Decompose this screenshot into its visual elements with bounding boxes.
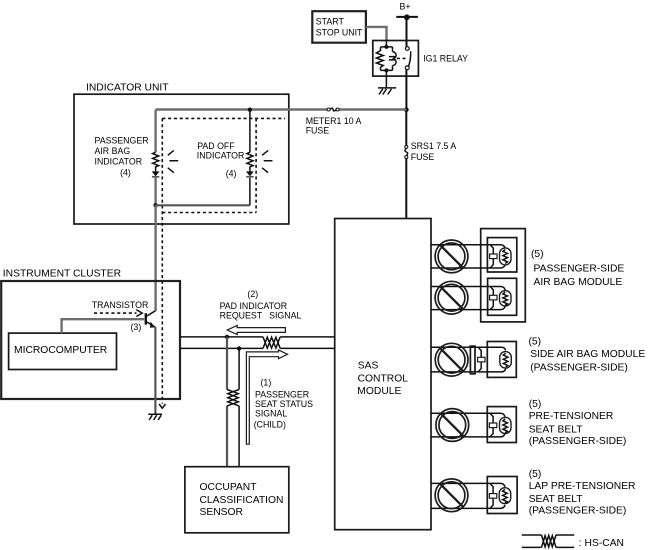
- svg-text:(5): (5): [529, 399, 542, 410]
- box SAS CONTROL MODULE: [335, 219, 431, 530]
- legend twisted pair HS-CAN: [522, 535, 574, 547]
- svg-text:INDICATOR UNIT: INDICATOR UNIT: [86, 82, 169, 93]
- wire transistor emitter to ground: [154, 327, 156, 414]
- shorting clip 5: [490, 483, 493, 508]
- svg-text:FUSE: FUSE: [411, 152, 435, 162]
- box START STOP UNIT: [312, 11, 366, 43]
- dashed line arrowhead: [159, 404, 165, 408]
- wire left OCS line: [226, 337, 228, 467]
- squib 1: [500, 248, 512, 265]
- svg-text:PAD INDICATOR: PAD INDICATOR: [220, 301, 287, 311]
- squib 4: [500, 417, 512, 433]
- svg-text:INDICATOR: INDICATOR: [197, 150, 245, 160]
- junction dot top wire: [225, 335, 229, 339]
- junction dot pad-off branch: [248, 108, 252, 112]
- shorting clip 2: [490, 287, 493, 310]
- svg-text:INDICATOR: INDICATOR: [95, 157, 143, 167]
- svg-text:TRANSISTOR: TRANSISTOR: [92, 300, 149, 310]
- wire relay switch down to junction: [405, 70, 407, 110]
- svg-text:CONTROL: CONTROL: [358, 373, 409, 384]
- svg-text:SRS1 7.5 A: SRS1 7.5 A: [411, 141, 457, 151]
- junction dot coil top: [384, 45, 388, 49]
- svg-text:SAS: SAS: [358, 361, 379, 372]
- module box side air bag: [487, 342, 516, 378]
- connector no-connection symbol 4: [436, 409, 469, 442]
- relay switch contact top: [405, 47, 409, 51]
- svg-text:STOP UNIT: STOP UNIT: [316, 28, 363, 38]
- svg-text:IG1 RELAY: IG1 RELAY: [423, 54, 468, 64]
- box INDICATOR UNIT: [74, 94, 289, 224]
- relay IG1 box: [373, 41, 419, 77]
- shorting clip 4: [490, 413, 493, 437]
- fuse METER1 10 A: [327, 108, 330, 111]
- svg-text:(2): (2): [247, 289, 258, 299]
- svg-text:SEAT STATUS: SEAT STATUS: [255, 399, 313, 409]
- module box squib 2: [488, 278, 517, 315]
- svg-text:AIR BAG: AIR BAG: [95, 146, 131, 156]
- svg-text:PASSENGER-SIDE: PASSENGER-SIDE: [534, 264, 625, 275]
- outer housing passenger-side air bag module: [481, 229, 526, 322]
- box MICROCOMPUTER: [9, 333, 117, 369]
- wire lamp to bottom junction: [154, 178, 156, 206]
- dashed sub-unit box: [162, 118, 285, 212]
- relay coil arcs: [393, 52, 397, 66]
- arrow (2) pad indicator request signal: [227, 325, 285, 334]
- wire pad-off branch down: [249, 110, 251, 206]
- svg-text:(PASSENGER-SIDE): (PASSENGER-SIDE): [530, 363, 628, 374]
- shorting clip 1: [490, 245, 493, 268]
- ground below transistor: [148, 414, 162, 420]
- inline connector bar (side air bag): [470, 346, 475, 374]
- relay coil core bars: [389, 57, 395, 60]
- svg-text:(5): (5): [531, 249, 544, 260]
- wire right OCS line: [238, 348, 240, 466]
- svg-text:SIGNAL: SIGNAL: [255, 409, 287, 419]
- wires SAS to pre-tensioner seat belt: [431, 413, 505, 437]
- svg-text:(5): (5): [529, 336, 542, 347]
- module box lap pre-tensioner: [487, 477, 517, 514]
- junction dot lamp bottom: [153, 203, 157, 207]
- relay coil zigzag: [376, 51, 383, 68]
- relay switch blade: [409, 51, 411, 66]
- junction dot at B+: [404, 14, 410, 20]
- wire left vertical lamp bottom to transistor collector: [154, 205, 156, 311]
- svg-text:(PASSENGER-SIDE): (PASSENGER-SIDE): [529, 436, 627, 447]
- lamp PAD OFF INDICATOR (4): [246, 150, 272, 176]
- svg-text:PRE-TENSIONER: PRE-TENSIONER: [529, 411, 614, 422]
- svg-text:: HS-CAN: : HS-CAN: [579, 538, 624, 549]
- lamp PASSENGER AIR BAG INDICATOR (4): [152, 150, 178, 176]
- transistor Q (3): [146, 311, 156, 328]
- junction dot coil bottom: [384, 68, 388, 72]
- svg-text:SEAT BELT: SEAT BELT: [529, 424, 584, 435]
- connector no-connection symbol 1: [435, 240, 468, 273]
- twisted pair HS-CAN horizontal: [263, 337, 280, 349]
- relay dashed link coil to switch: [397, 57, 406, 59]
- svg-text:SENSOR: SENSOR: [200, 507, 244, 518]
- svg-text:OCCUPANT: OCCUPANT: [200, 482, 258, 493]
- module box squib 1: [487, 238, 516, 272]
- wire SRS1 fuse down to SAS module: [405, 159, 407, 219]
- svg-text:SEAT BELT: SEAT BELT: [529, 494, 584, 505]
- svg-text:(3): (3): [131, 322, 142, 332]
- svg-text:AIR BAG MODULE: AIR BAG MODULE: [534, 277, 623, 288]
- svg-text:PASSENGER: PASSENGER: [255, 389, 309, 399]
- wire microcomputer to transistor base: [62, 319, 145, 333]
- svg-text:(4): (4): [120, 167, 131, 177]
- wires SAS to passenger-side air bag module squib 1: [431, 245, 505, 268]
- svg-text:(PASSENGER-SIDE): (PASSENGER-SIDE): [529, 506, 627, 517]
- svg-text:PASSENGER: PASSENGER: [95, 135, 149, 145]
- fuse SRS1 7.5 A: [405, 145, 408, 148]
- squib 3: [500, 352, 512, 369]
- wire jumper between indicators: [156, 204, 250, 206]
- wire IC to SAS top (pad indicator request): [180, 336, 335, 338]
- wire IC to SAS bottom (seat status): [180, 347, 335, 349]
- connector no-connection symbol 2: [435, 281, 468, 314]
- shorting clip 3 (outside module): [478, 347, 481, 372]
- svg-text:MODULE: MODULE: [357, 386, 401, 397]
- arrow (1) passenger seat status signal: [246, 350, 287, 444]
- wire left vertical from main wire to lamp: [154, 110, 156, 153]
- node B+ terminal bar: [396, 16, 418, 18]
- svg-text:SIDE AIR BAG MODULE: SIDE AIR BAG MODULE: [530, 349, 645, 360]
- svg-text:LAP PRE-TENSIONER: LAP PRE-TENSIONER: [529, 481, 636, 492]
- wire START STOP UNIT to relay coil: [366, 27, 387, 42]
- relay coil loop: [381, 42, 393, 88]
- svg-text:(1): (1): [261, 378, 272, 388]
- connector no-connection symbol 5: [435, 479, 468, 512]
- svg-text:REQUESTSIGNAL: REQUESTSIGNAL: [220, 311, 302, 321]
- junction dot bottom wire: [237, 346, 241, 350]
- svg-text:(CHILD): (CHILD): [254, 420, 286, 430]
- wires SAS to side air bag module: [431, 347, 506, 372]
- connector no-connection symbol 3: [435, 343, 468, 376]
- wire B+ down to relay switch: [406, 17, 408, 47]
- dashed arrow to transistor: [94, 310, 142, 317]
- relay switch contact bottom: [405, 66, 409, 70]
- svg-text:INSTRUMENT CLUSTER: INSTRUMENT CLUSTER: [3, 269, 121, 280]
- box INSTRUMENT CLUSTER: [1, 281, 180, 399]
- dashed line indicator to transistor: [161, 118, 163, 403]
- wire main horizontal to METER1 fuse: [156, 108, 407, 110]
- svg-text:CLASSIFICATION: CLASSIFICATION: [200, 495, 284, 506]
- svg-text:(4): (4): [226, 168, 237, 178]
- junction dot main: [404, 107, 409, 112]
- module box pre-tensioner: [487, 407, 516, 443]
- ground below relay coil: [378, 88, 396, 95]
- svg-text:(5): (5): [529, 469, 542, 480]
- svg-text:START: START: [316, 17, 345, 27]
- squib 2: [500, 291, 512, 306]
- squib 5: [499, 488, 511, 504]
- svg-text:B+: B+: [400, 1, 411, 11]
- wires SAS to lap pre-tensioner seat belt: [431, 483, 505, 508]
- svg-text:FUSE: FUSE: [306, 125, 330, 135]
- twisted pair HS-CAN vertical: [227, 390, 239, 406]
- box OCCUPANT CLASSIFICATION SENSOR: [185, 467, 289, 533]
- wire junction down to SRS1 fuse: [405, 110, 407, 146]
- wires SAS to passenger-side air bag module squib 2: [431, 287, 505, 310]
- svg-text:MICROCOMPUTER: MICROCOMPUTER: [14, 345, 107, 356]
